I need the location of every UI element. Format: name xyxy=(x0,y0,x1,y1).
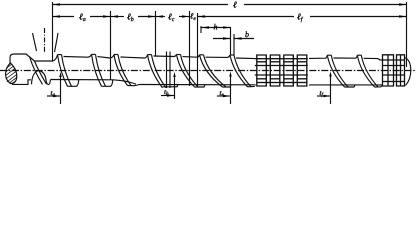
flight band zone f no3 xyxy=(327,55,344,87)
extension line left (screw effective start) xyxy=(52,2,54,61)
arrow l left xyxy=(53,3,60,5)
section horizontal lines xyxy=(255,65,308,67)
ring5 xyxy=(383,55,394,60)
tick le/lf xyxy=(197,13,199,86)
tick lc/le xyxy=(189,11,191,86)
arrow l right xyxy=(399,3,406,5)
flight band zone a no2 xyxy=(58,55,68,87)
screw start crest (first flight land) xyxy=(10,54,53,64)
arrow la left xyxy=(53,15,60,17)
svg-text:ℓ: ℓ xyxy=(233,0,237,10)
flight start root arch xyxy=(32,71,49,85)
flight band zone f no1 xyxy=(200,55,223,87)
ring4 xyxy=(297,55,307,59)
flight band zone a no3 xyxy=(92,54,102,86)
arrow la right xyxy=(103,15,110,17)
flight band zone c xyxy=(177,55,195,88)
pitch marker t_a xyxy=(60,75,62,105)
dimension l line xyxy=(53,4,229,6)
screw centerline (dash-dot) xyxy=(0,70,416,72)
flight band zone b no2 xyxy=(148,55,163,88)
flight start edge xyxy=(30,57,43,85)
flight band zone b no1 xyxy=(114,55,128,86)
svg-text:b: b xyxy=(245,30,249,39)
dimension la line xyxy=(53,16,75,18)
arrow lb left xyxy=(111,15,118,17)
bottom foot zone c no1 xyxy=(163,85,179,87)
arrow lc right xyxy=(182,15,189,17)
ring section 1 (4 rings) xyxy=(255,55,308,86)
bottom root contour zone c-f xyxy=(139,84,256,86)
bottom foot zone c no2 xyxy=(195,85,206,87)
hopper right wall xyxy=(55,33,59,52)
arrow lc left xyxy=(156,15,163,17)
arrow lb right xyxy=(148,15,155,17)
tick lb/lc xyxy=(155,11,157,57)
pitch marker t_e xyxy=(230,74,232,104)
arrow lf right xyxy=(399,15,406,17)
svg-text:h: h xyxy=(213,23,217,32)
bottom foot rear no1 xyxy=(345,85,356,87)
dimension lf line xyxy=(197,16,294,18)
b extension lines xyxy=(230,28,232,56)
bottom root contour rear xyxy=(309,84,383,86)
dimension lb line xyxy=(110,16,124,18)
gap connectors top xyxy=(255,58,257,60)
bottom feet zone a xyxy=(49,80,51,85)
dimension h xyxy=(200,26,202,33)
bottom foot zone f no2 xyxy=(248,85,255,87)
bottom contour feed root xyxy=(51,80,137,85)
bottom line under start xyxy=(12,80,31,85)
ring3 xyxy=(284,55,294,59)
hopper left wall xyxy=(33,33,37,51)
bottom foot rear no2 xyxy=(375,86,383,88)
vertical flight element at zone b/c xyxy=(166,52,168,89)
ring2 xyxy=(270,55,280,59)
flight band zone f no4 xyxy=(357,55,374,87)
ring1 xyxy=(257,55,267,59)
screw tip nose xyxy=(405,58,411,86)
pitch marker t_f xyxy=(330,74,332,104)
bottom foot zone f no1 xyxy=(223,85,232,87)
extension line right (screw tip) xyxy=(406,2,408,67)
flight band zone f no2 (b flight) xyxy=(230,55,248,87)
hopper centerline (dash-dot) xyxy=(44,28,46,52)
ring section 2 (2 wide rings at tip) xyxy=(383,55,405,86)
ring6 xyxy=(397,55,405,60)
bottom foot zone b xyxy=(128,85,140,86)
arrow lf left xyxy=(198,15,205,17)
dimension lc line xyxy=(155,16,165,18)
flight start section (hatched teardrop) xyxy=(6,63,17,84)
top root contour a-zone xyxy=(53,55,58,61)
pitch marker t_b xyxy=(174,75,176,100)
dimension b arrows xyxy=(213,38,231,40)
flight crest flats xyxy=(58,54,62,56)
tick la/lb xyxy=(110,11,112,80)
